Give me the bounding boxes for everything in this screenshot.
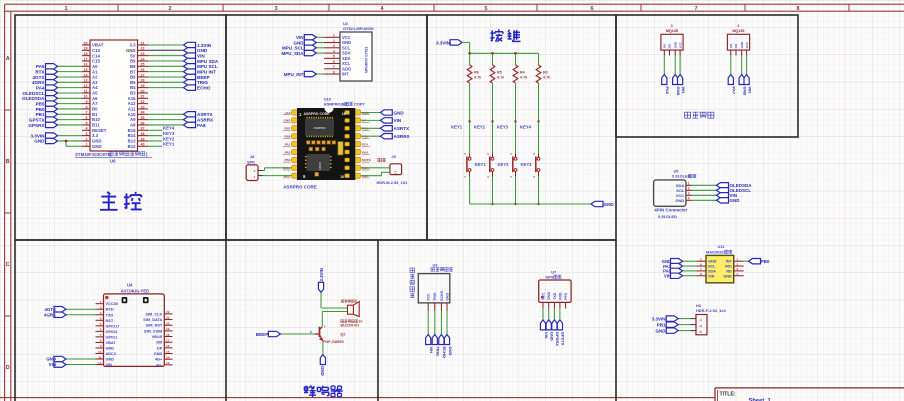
svg-text:ASRPRO: ASRPRO <box>313 126 326 130</box>
svg-text:PNP-S8550: PNP-S8550 <box>323 339 345 344</box>
svg-text:3: 3 <box>275 6 278 12</box>
svg-text:16: 16 <box>84 63 88 67</box>
svg-text:OLEDSDA: OLEDSDA <box>22 96 45 101</box>
svg-text:SCL: SCL <box>342 45 351 50</box>
svg-text:A7: A7 <box>92 101 98 106</box>
svg-text:GND: GND <box>106 346 115 350</box>
svg-text:34: 34 <box>141 111 145 115</box>
svg-text:BUZ2R-R1: BUZ2R-R1 <box>341 323 360 327</box>
svg-text:ADC3: ADC3 <box>106 352 116 356</box>
svg-text:GPIO4: GPIO4 <box>106 330 119 334</box>
svg-text:AO: AO <box>729 43 733 48</box>
svg-text:5: 5 <box>700 257 702 261</box>
svg-text:B0: B0 <box>92 107 98 112</box>
svg-text:BEEP: BEEP <box>197 75 210 80</box>
svg-text:10: 10 <box>84 95 88 99</box>
svg-text:Air724UG-YED: Air724UG-YED <box>121 288 149 293</box>
svg-text:GND: GND <box>723 274 732 278</box>
svg-text:U5: U5 <box>674 168 680 173</box>
svg-text:S8008: S8008 <box>318 162 322 171</box>
svg-text:C14: C14 <box>92 53 100 58</box>
svg-text:17: 17 <box>166 339 170 343</box>
svg-text:INT: INT <box>726 260 733 264</box>
svg-text:STM32F103C8T6(: STM32F103C8T6( <box>75 152 112 157</box>
svg-text:R3: R3 <box>543 71 548 75</box>
svg-text:GND: GND <box>656 328 667 333</box>
svg-text:11: 11 <box>84 89 88 93</box>
svg-text:R6: R6 <box>474 71 479 75</box>
svg-text:RESET: RESET <box>92 128 107 133</box>
svg-text:2: 2 <box>737 262 739 266</box>
svg-text:GND: GND <box>730 198 741 203</box>
svg-text:40: 40 <box>141 143 145 147</box>
svg-text:KEY2: KEY2 <box>498 162 510 167</box>
svg-text:39: 39 <box>141 137 145 141</box>
svg-text:38: 38 <box>141 132 145 136</box>
svg-text:3.3: 3.3 <box>92 133 99 138</box>
svg-text:3.3VIN: 3.3VIN <box>652 316 666 321</box>
svg-text:SPK: SPK <box>247 160 255 165</box>
svg-text:4.7k: 4.7k <box>474 76 482 80</box>
svg-text:GND: GND <box>448 347 453 356</box>
svg-text:17: 17 <box>84 57 88 61</box>
svg-text:TITLE:: TITLE: <box>720 392 736 398</box>
svg-text:4: 4 <box>688 197 690 201</box>
svg-text:5: 5 <box>86 121 88 125</box>
svg-text:15: 15 <box>166 350 170 354</box>
svg-text:IRD: IRD <box>725 265 732 269</box>
svg-text:ASRTX: ASRTX <box>197 112 214 117</box>
svg-text:GND: GND <box>673 42 677 48</box>
svg-text:0.91OLED: 0.91OLED <box>672 174 691 179</box>
svg-text:5V: 5V <box>130 53 135 58</box>
svg-text:GND: GND <box>92 139 102 144</box>
svg-text:8: 8 <box>700 272 702 276</box>
svg-text:GND: GND <box>197 48 208 53</box>
svg-text:A0: A0 <box>92 64 98 69</box>
svg-text:PC4: PC4 <box>362 142 368 146</box>
svg-text:VIN: VIN <box>429 347 434 354</box>
svg-text:RXD: RXD <box>106 308 114 312</box>
svg-text:GND: GND <box>743 87 748 96</box>
svg-text:ECHO: ECHO <box>197 85 211 90</box>
svg-text:VIN: VIN <box>708 274 715 278</box>
svg-text:7: 7 <box>100 333 102 337</box>
svg-text:VIN: VIN <box>664 273 671 278</box>
svg-text:PB3: PB3 <box>284 158 290 162</box>
svg-text:B4: B4 <box>130 85 136 90</box>
svg-text:ECHO: ECHO <box>442 347 447 359</box>
svg-text:GND: GND <box>284 119 292 123</box>
svg-text:13: 13 <box>166 361 170 365</box>
svg-text:13: 13 <box>84 79 88 83</box>
svg-text:ECHO: ECHO <box>440 290 444 300</box>
svg-text:PB1: PB1 <box>36 112 45 117</box>
svg-text:GND: GND <box>604 202 615 207</box>
svg-text:VIN: VIN <box>296 35 304 40</box>
svg-text:1: 1 <box>65 6 68 12</box>
svg-text:GND: GND <box>294 40 305 45</box>
svg-text:GND: GND <box>394 110 405 115</box>
svg-text:8: 8 <box>797 6 800 12</box>
svg-text:VIN: VIN <box>681 87 686 94</box>
svg-text:3: 3 <box>688 192 690 196</box>
svg-text:VCC: VCC <box>342 35 351 40</box>
svg-text:4: 4 <box>100 317 102 321</box>
svg-text:PA2: PA2 <box>285 150 291 154</box>
svg-text:GND: GND <box>547 292 551 300</box>
svg-text:KEY4: KEY4 <box>520 124 532 129</box>
svg-text:B6: B6 <box>130 75 136 80</box>
svg-text:B13: B13 <box>128 139 136 144</box>
svg-text:VIN: VIN <box>49 362 56 367</box>
svg-text:TRIG: TRIG <box>433 292 437 301</box>
svg-text:20: 20 <box>166 322 170 326</box>
svg-text:12: 12 <box>98 361 102 365</box>
svg-text:B12: B12 <box>128 144 136 149</box>
svg-text:RXD: RXD <box>558 292 562 300</box>
svg-text:e: e <box>324 325 326 329</box>
svg-text:SIM_DATA: SIM_DATA <box>143 318 162 322</box>
svg-text:4: 4 <box>333 49 335 53</box>
svg-text:3: 3 <box>333 44 335 48</box>
svg-text:3.3VIN: 3.3VIN <box>319 268 324 281</box>
svg-text:4A0: 4A0 <box>285 111 291 115</box>
svg-text:PB0: PB0 <box>761 259 770 264</box>
svg-text:GND: GND <box>445 293 449 301</box>
svg-text:INT: INT <box>342 72 349 77</box>
svg-text:PB8: PB8 <box>284 135 290 139</box>
svg-text:21: 21 <box>141 41 145 45</box>
svg-text:GPSRX: GPSRX <box>28 123 45 128</box>
svg-text:VIN: VIN <box>747 87 752 94</box>
svg-text:GND: GND <box>154 352 163 356</box>
svg-text:1: 1 <box>671 24 673 28</box>
svg-text:ADO: ADO <box>342 66 352 71</box>
svg-text:KEY2: KEY2 <box>474 124 486 129</box>
svg-text:SDA: SDA <box>708 269 716 273</box>
svg-text:U3: U3 <box>433 262 439 267</box>
svg-text:4.7k: 4.7k <box>543 76 551 80</box>
svg-text:A6: A6 <box>92 96 98 101</box>
svg-text:27: 27 <box>141 73 145 77</box>
svg-text:PA4: PA4 <box>362 150 368 154</box>
svg-text:7: 7 <box>333 65 335 69</box>
svg-text:B11: B11 <box>92 123 100 128</box>
svg-text:PA7: PA7 <box>732 87 737 95</box>
svg-text:MPU6050 GY521: MPU6050 GY521 <box>365 46 369 73</box>
svg-text:GND: GND <box>342 40 351 45</box>
svg-text:5: 5 <box>485 6 488 12</box>
svg-text:A5: A5 <box>92 91 98 96</box>
svg-text:B15: B15 <box>128 128 136 133</box>
svg-text:16: 16 <box>166 344 170 348</box>
svg-text:2: 2 <box>333 39 335 43</box>
svg-text:4GTX: 4GTX <box>45 307 57 312</box>
svg-text:7: 7 <box>700 267 702 271</box>
svg-text:B1: B1 <box>92 112 98 117</box>
svg-text:KEY1: KEY1 <box>451 124 463 129</box>
svg-text:PB0: PB0 <box>36 107 45 112</box>
svg-text:25: 25 <box>141 63 145 67</box>
svg-text:KEY4: KEY4 <box>163 126 175 131</box>
svg-text:21: 21 <box>166 316 170 320</box>
svg-text:GND: GND <box>675 198 684 203</box>
svg-text:GND: GND <box>550 332 555 341</box>
svg-text:29: 29 <box>141 84 145 88</box>
svg-text:MQ135: MQ135 <box>732 29 744 33</box>
svg-text:2: 2 <box>169 6 172 12</box>
svg-text:VCC30: VCC30 <box>106 302 118 306</box>
svg-text:MPU INT: MPU INT <box>197 69 216 74</box>
svg-text:B7: B7 <box>130 69 136 74</box>
svg-text:20: 20 <box>84 41 88 45</box>
svg-text:GND: GND <box>92 144 102 149</box>
svg-text:A9: A9 <box>130 117 136 122</box>
svg-text:6: 6 <box>100 328 102 332</box>
svg-text:7: 7 <box>86 111 88 115</box>
svg-text:KEY3: KEY3 <box>497 124 509 129</box>
svg-text:4GTX: 4GTX <box>33 75 46 80</box>
svg-text:5: 5 <box>100 322 102 326</box>
svg-text:A3: A3 <box>92 80 98 85</box>
svg-text:GND: GND <box>320 366 325 376</box>
svg-text:C: C <box>6 262 10 268</box>
svg-text:TXD: TXD <box>553 292 557 299</box>
svg-text:1 2: 1 2 <box>394 170 398 174</box>
svg-text:23: 23 <box>141 52 145 56</box>
svg-text:11: 11 <box>98 355 102 359</box>
svg-text:DP: DP <box>157 346 163 350</box>
svg-text:A4: A4 <box>92 85 98 90</box>
svg-text:GY521-MPU6050: GY521-MPU6050 <box>343 26 374 31</box>
svg-text:4G-: 4G- <box>156 363 163 367</box>
svg-text:B10: B10 <box>92 117 100 122</box>
svg-text:PA4: PA4 <box>36 85 45 90</box>
svg-text:SDA: SDA <box>342 51 351 56</box>
svg-text:3: 3 <box>86 132 88 136</box>
svg-text:ASRPRO CORE: ASRPRO CORE <box>304 112 331 116</box>
svg-text:KEY1: KEY1 <box>163 142 175 147</box>
svg-text:4: 4 <box>737 272 739 276</box>
svg-text:3: 3 <box>737 267 739 271</box>
svg-text:ASRRX: ASRRX <box>394 134 411 139</box>
svg-text:GPS: GPS <box>545 274 554 279</box>
svg-text:1: 1 <box>737 257 739 261</box>
svg-text:9: 9 <box>100 344 102 348</box>
svg-text:8: 8 <box>100 339 102 343</box>
svg-text:35: 35 <box>141 116 145 120</box>
svg-text:DO: DO <box>668 43 672 48</box>
svg-text:22: 22 <box>141 47 145 51</box>
svg-text:A: A <box>6 56 10 62</box>
svg-text:VCC: VCC <box>541 292 545 300</box>
svg-text:4.7k: 4.7k <box>520 76 528 80</box>
svg-text:4GRX: 4GRX <box>32 80 45 85</box>
svg-text:U11: U11 <box>718 244 726 249</box>
svg-text:28: 28 <box>141 79 145 83</box>
svg-text:3.3VIN: 3.3VIN <box>30 133 45 138</box>
svg-text:14: 14 <box>166 355 170 359</box>
svg-text:RST: RST <box>106 319 114 323</box>
svg-text:4PIN Connector: 4PIN Connector <box>654 208 687 213</box>
svg-text:12: 12 <box>84 84 88 88</box>
svg-text:4: 4 <box>381 6 384 12</box>
svg-text:18: 18 <box>342 112 346 116</box>
svg-text:RD: RD <box>726 269 732 273</box>
svg-text:KEY1: KEY1 <box>475 162 487 167</box>
svg-text:SIM_CLK: SIM_CLK <box>145 312 162 316</box>
svg-text:GND: GND <box>106 358 115 362</box>
svg-text:6: 6 <box>333 60 335 64</box>
svg-text:6: 6 <box>700 262 702 266</box>
svg-text:HDR-F-2.54_1x3: HDR-F-2.54_1x3 <box>696 308 726 313</box>
svg-text:26: 26 <box>141 68 145 72</box>
svg-text:C13: C13 <box>92 48 100 53</box>
svg-text:VIN: VIN <box>106 363 113 367</box>
svg-text:1: 1 <box>688 182 690 186</box>
svg-text:GND: GND <box>126 48 136 53</box>
svg-text:U4: U4 <box>127 282 133 287</box>
svg-text:J9: J9 <box>392 155 396 159</box>
svg-text:32: 32 <box>141 100 145 104</box>
svg-text:1: 1 <box>333 34 335 38</box>
svg-text:PB5: PB5 <box>36 101 45 106</box>
svg-text:2: 2 <box>737 24 739 28</box>
svg-text:XDA: XDA <box>342 56 351 61</box>
svg-text:10: 10 <box>340 175 344 179</box>
svg-text:SIM_VSIM: SIM_VSIM <box>144 329 162 333</box>
svg-text:19: 19 <box>84 47 88 51</box>
svg-text:PB7: PB7 <box>284 127 290 131</box>
svg-text:PA6: PA6 <box>665 87 670 95</box>
svg-text:GND: GND <box>740 42 744 48</box>
svg-text:33: 33 <box>141 105 145 109</box>
svg-text:GND: GND <box>708 260 717 264</box>
svg-text:1: 1 <box>699 319 703 321</box>
svg-text:31: 31 <box>141 95 145 99</box>
svg-text:18: 18 <box>166 333 170 337</box>
svg-text:4.7k: 4.7k <box>497 76 505 80</box>
svg-text:R5: R5 <box>497 71 502 75</box>
svg-text:MAX30102: MAX30102 <box>706 249 726 254</box>
svg-text:8: 8 <box>86 105 88 109</box>
svg-text:8: 8 <box>333 70 335 74</box>
svg-text:6: 6 <box>86 116 88 120</box>
svg-text:ASRPRO CORE: ASRPRO CORE <box>283 184 317 189</box>
svg-text:SCL: SCL <box>708 265 716 269</box>
svg-text:MPU_INT: MPU_INT <box>284 72 304 77</box>
svg-text:A15: A15 <box>128 96 136 101</box>
svg-text:VCC: VCC <box>678 41 682 48</box>
svg-text:ASRRX: ASRRX <box>197 117 214 122</box>
svg-text:GPSTX: GPSTX <box>29 117 46 122</box>
svg-text:37: 37 <box>141 127 145 131</box>
svg-text:14: 14 <box>84 73 88 77</box>
svg-text:A10: A10 <box>128 112 136 117</box>
svg-text:9: 9 <box>86 100 88 104</box>
svg-text:A8: A8 <box>130 123 136 128</box>
svg-text:DM: DM <box>156 341 162 345</box>
svg-text:OLEDSCL: OLEDSCL <box>23 91 45 96</box>
svg-text:A2: A2 <box>92 75 98 80</box>
svg-text:TRIG: TRIG <box>197 80 208 85</box>
svg-text:B14: B14 <box>128 133 136 138</box>
svg-text:36: 36 <box>141 121 145 125</box>
svg-text:GND: GND <box>34 139 45 144</box>
svg-text:4: 4 <box>86 127 88 131</box>
svg-text:PB1: PB1 <box>657 322 666 327</box>
svg-text:PPS: PPS <box>564 292 568 300</box>
svg-text:2: 2 <box>86 137 88 141</box>
svg-text:7: 7 <box>695 6 698 12</box>
svg-text:TRIG: TRIG <box>436 347 441 357</box>
svg-text:GND: GND <box>676 87 681 96</box>
svg-text:3.3VIN: 3.3VIN <box>436 40 451 45</box>
svg-text:VBAT: VBAT <box>106 341 117 345</box>
svg-text:1: 1 <box>100 300 102 304</box>
svg-text:22: 22 <box>166 310 170 314</box>
svg-text:VCC: VCC <box>745 41 749 48</box>
svg-text:XCL: XCL <box>342 61 351 66</box>
svg-text:18: 18 <box>84 52 88 56</box>
svg-text:3.3: 3.3 <box>130 43 137 48</box>
svg-text:4GRX: 4GRX <box>44 312 56 317</box>
svg-text:A11: A11 <box>128 107 136 112</box>
svg-text:VIN: VIN <box>544 332 549 339</box>
svg-text:A1: A1 <box>92 69 98 74</box>
svg-text:5: 5 <box>333 55 335 59</box>
svg-text:1: 1 <box>86 143 88 147</box>
svg-text:MPU_SCL: MPU_SCL <box>282 46 304 51</box>
svg-text:B9: B9 <box>130 59 136 64</box>
svg-text:B: B <box>6 159 10 165</box>
svg-text:4G+: 4G+ <box>155 358 163 362</box>
svg-text:30: 30 <box>141 89 145 93</box>
svg-text:KEY3: KEY3 <box>163 131 175 136</box>
svg-text:C15: C15 <box>92 59 100 64</box>
svg-text:TXD: TXD <box>106 313 114 317</box>
svg-text:GPIO17: GPIO17 <box>106 324 120 328</box>
svg-text:24: 24 <box>141 57 145 61</box>
svg-text:MUTE: MUTE <box>362 158 371 162</box>
svg-text:PA1: PA1 <box>285 142 291 146</box>
svg-text:KEY2: KEY2 <box>163 136 175 141</box>
svg-text:PA5: PA5 <box>36 64 45 69</box>
svg-text:U6: U6 <box>110 159 116 164</box>
svg-text:3: 3 <box>100 311 102 315</box>
svg-text:3: 3 <box>699 331 703 333</box>
svg-text:VBUS: VBUS <box>152 335 163 339</box>
svg-text:PA8: PA8 <box>197 123 206 128</box>
svg-text:B3: B3 <box>130 91 136 96</box>
svg-text:6: 6 <box>591 6 594 12</box>
svg-text:VBAT: VBAT <box>92 43 104 48</box>
svg-text:B8: B8 <box>130 64 136 69</box>
svg-text:ASRTX: ASRTX <box>394 126 411 131</box>
svg-text:Q2: Q2 <box>340 332 346 337</box>
svg-text:GPIO1: GPIO1 <box>106 335 119 339</box>
svg-text:b: b <box>310 330 312 334</box>
svg-text:3.3VIN: 3.3VIN <box>197 43 212 48</box>
svg-text:VIN: VIN <box>197 53 205 58</box>
svg-text:19: 19 <box>166 327 170 331</box>
svg-text:0.91OLED: 0.91OLED <box>658 214 677 219</box>
svg-text:DO: DO <box>734 43 738 48</box>
svg-text:VCC: VCC <box>427 293 431 301</box>
svg-text:2: 2 <box>699 325 703 327</box>
svg-text:15: 15 <box>84 68 88 72</box>
